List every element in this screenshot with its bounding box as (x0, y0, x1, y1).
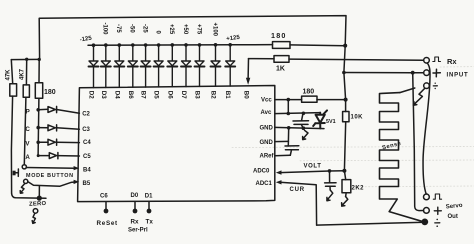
svg-text:-75: -75 (115, 24, 121, 33)
diode column B2 (+100) (214, 43, 218, 47)
wire B5 (28, 182, 75, 187)
diode column B6 (-50) (131, 43, 135, 47)
svg-text:+125: +125 (226, 35, 241, 43)
diode column D3 (-100) (104, 43, 108, 47)
svg-text:Avc: Avc (261, 110, 272, 116)
wire CUR from ADC1 (280, 182, 317, 225)
resistor 2K2 (344, 171, 345, 180)
diode row A (49, 153, 58, 159)
plus symbol input (433, 69, 440, 77)
resistor 180 right (302, 96, 317, 102)
wire RX to servo signal passthrough (423, 63, 430, 194)
node rail top junction (343, 44, 347, 48)
node row A corner (37, 154, 40, 157)
svg-text:4K7: 4K7 (20, 68, 26, 80)
wire + passthrough down (413, 73, 424, 211)
terminal servo + (424, 208, 430, 214)
svg-text:Tx: Tx (146, 219, 154, 226)
diode row V (48, 139, 57, 145)
svg-text:B5: B5 (83, 181, 91, 187)
wire GND2 stub (275, 140, 289, 142)
wire +input (344, 72, 424, 74)
wire row P (38, 108, 48, 111)
svg-text:180: 180 (44, 89, 56, 96)
svg-text:5V1: 5V1 (326, 119, 336, 125)
svg-text:ZERO: ZERO (29, 201, 47, 208)
svg-text:-100: -100 (102, 23, 108, 36)
svg-text:D4: D4 (113, 91, 120, 99)
svg-text:B1: B1 (224, 91, 231, 99)
minus symbol input (433, 85, 437, 87)
svg-text:D3: D3 (100, 91, 107, 99)
svg-text:D1: D1 (145, 194, 153, 200)
terminal RX signal (424, 58, 430, 64)
svg-text:C4: C4 (83, 140, 91, 146)
capacitor C-volt (325, 171, 336, 190)
svg-text:Rx: Rx (131, 219, 140, 226)
wire main +bat rail (344, 46, 346, 112)
graph paper faint lines (232, 67, 474, 187)
svg-text:Rx: Rx (447, 57, 457, 66)
svg-text:MODE BUTTON: MODE BUTTON (26, 173, 74, 179)
svg-text:D2: D2 (88, 91, 95, 99)
wire B4 (26, 167, 74, 170)
diode row P (48, 106, 57, 112)
ground squiggle below cap (303, 130, 308, 139)
svg-text:Vcc: Vcc (261, 98, 272, 104)
ground squiggle below 2K2 (342, 197, 348, 206)
node header junction 1 (25, 58, 28, 61)
svg-text:-50: -50 (129, 24, 135, 33)
pulse symbol servo (433, 194, 441, 199)
ground squiggle input minus (414, 88, 425, 104)
pulse symbol RX (433, 57, 441, 62)
svg-text:ReSet: ReSet (97, 220, 119, 227)
svg-text:180: 180 (271, 31, 287, 40)
wire row V (38, 141, 48, 143)
node row P junction (36, 108, 40, 112)
svg-text:1K: 1K (276, 66, 285, 73)
zener 5V1 (313, 110, 327, 128)
svg-text:Servo: Servo (446, 203, 464, 211)
svg-text:ADC0: ADC0 (253, 168, 270, 174)
mode button actuator (15, 169, 18, 176)
wire left ground rail (11, 96, 46, 198)
svg-text:ADC1: ADC1 (256, 181, 273, 187)
svg-text:C5: C5 (83, 154, 91, 160)
svg-text:ARef: ARef (260, 153, 275, 159)
mode button press squiggle (21, 184, 25, 193)
svg-text:C: C (25, 126, 30, 133)
svg-text:A: A (25, 154, 30, 161)
svg-text:D7: D7 (180, 91, 187, 99)
wire zero drop (38, 186, 40, 198)
wire C to pin C3 (57, 128, 80, 129)
svg-text:CUR: CUR (290, 187, 305, 193)
wire mode select column (37, 98, 40, 155)
wire V to pin C4 (57, 141, 80, 143)
wire row C (38, 127, 48, 129)
diode row C (48, 125, 57, 131)
wire 1K to RX terminal (289, 59, 424, 60)
diode column D2 (-125) (92, 43, 96, 47)
node rail 180 junction (344, 98, 348, 102)
wire 4K7 to mode button (24, 97, 26, 164)
wire A to pin C5 (58, 155, 80, 157)
svg-text:Ser-Prl: Ser-Prl (128, 228, 148, 234)
pin D1 stub (148, 202, 150, 209)
wire minus to sense top (400, 88, 415, 93)
svg-text:+25: +25 (168, 24, 174, 35)
svg-text:-25: -25 (141, 24, 147, 33)
IC U1 body (78, 86, 275, 202)
resistor 180 left (38, 59, 40, 82)
resistor 4K7 (25, 59, 27, 85)
resistor sense shunt (380, 93, 425, 223)
svg-text:B0: B0 (242, 91, 249, 99)
wire Avcc (275, 113, 320, 114)
pin D0 stub (134, 202, 136, 209)
zero button contact (33, 209, 38, 214)
wire top +V rail (39, 16, 346, 60)
svg-text:+75: +75 (195, 24, 201, 35)
wire VOLT from ADC0 (280, 171, 344, 173)
svg-text:D6: D6 (166, 91, 173, 99)
node row V junction (36, 141, 40, 145)
wire Vcc-Avcc link (287, 100, 289, 114)
ground squiggle below C-volt (327, 190, 333, 200)
node zero junction (37, 196, 42, 201)
pin C6 stub (105, 202, 107, 209)
capacitor C-vcc (293, 113, 309, 128)
svg-text:VOLT: VOLT (304, 164, 322, 170)
wire GND1 (275, 127, 324, 128)
resistor 180 top (234, 44, 273, 46)
svg-text:0: 0 (154, 31, 160, 35)
svg-text:+50: +50 (182, 24, 188, 35)
svg-text:INPUT: INPUT (447, 73, 469, 79)
wire diode bus rail (88, 44, 234, 47)
wire GND drop to cap (287, 128, 289, 146)
resistor 1K (249, 58, 275, 60)
svg-text:P: P (26, 108, 30, 115)
svg-text:B6: B6 (127, 91, 134, 99)
resistor 47K (11, 60, 12, 84)
wire row A (38, 155, 49, 157)
wire resistor header (11, 58, 39, 60)
svg-text:B7: B7 (140, 91, 147, 99)
svg-text:D5: D5 (153, 91, 160, 99)
diode column D5 (0) (157, 43, 161, 47)
svg-text:B3: B3 (194, 91, 201, 99)
wire B0 (247, 59, 249, 80)
diode column B7 (-25) (144, 43, 148, 47)
node header junction 2 (38, 58, 41, 61)
svg-text:C6: C6 (100, 194, 108, 200)
svg-text:-125: -125 (79, 36, 92, 44)
svg-text:V: V (25, 141, 30, 148)
diode column D4 (-75) (118, 43, 122, 47)
wire P to pin C2 (57, 110, 80, 114)
svg-text:C2: C2 (82, 112, 90, 118)
terminal input - (424, 83, 430, 89)
resistor 10K (343, 112, 349, 122)
svg-text:2K2: 2K2 (352, 186, 365, 192)
svg-text:B4: B4 (83, 168, 91, 174)
mode button lower contact (24, 179, 28, 183)
wire bottom rail to sense (317, 222, 425, 225)
diode column B3 (+75) (198, 43, 202, 47)
wire Vcc (275, 99, 302, 101)
svg-text:47K: 47K (5, 69, 11, 81)
svg-text:C3: C3 (82, 127, 90, 133)
wire AREF stub (275, 154, 291, 156)
svg-text:GND: GND (260, 125, 274, 131)
mode button top contact (22, 165, 26, 169)
svg-text:B2: B2 (210, 91, 217, 99)
terminal servo signal (424, 194, 430, 200)
capacitor C-aref (285, 146, 299, 156)
diode column D6 (+25) (171, 43, 175, 47)
svg-text:D0: D0 (131, 193, 139, 199)
diode column B1 (+125) (228, 43, 232, 47)
node servo minus junction (421, 219, 428, 226)
diode column D7 (+50) (184, 43, 188, 47)
node row C junction (36, 126, 40, 130)
svg-text:180: 180 (303, 89, 315, 96)
plus symbol servo (434, 207, 441, 214)
svg-text:10K: 10K (351, 115, 364, 121)
svg-text:GND: GND (260, 140, 274, 146)
svg-text:+100: +100 (211, 23, 217, 37)
svg-text:Out: Out (448, 214, 458, 220)
minus symbol servo (435, 222, 440, 224)
zero button press squiggle (33, 213, 35, 223)
terminal input + (424, 70, 430, 76)
